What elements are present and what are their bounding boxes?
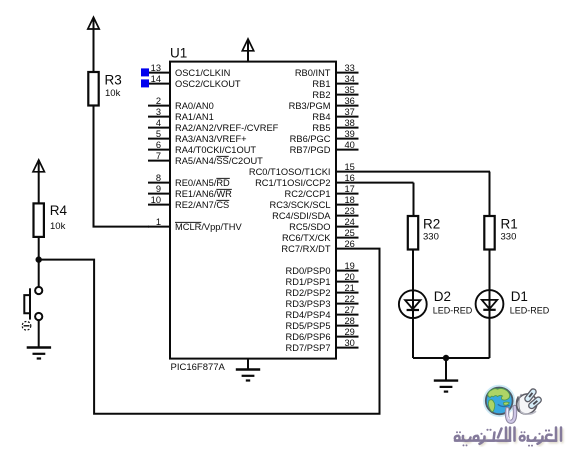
svg-text:RC2/CCP1: RC2/CCP1: [285, 189, 331, 199]
wire pin 29 stub: [336, 336, 359, 338]
svg-text:RA0/AN0: RA0/AN0: [175, 101, 214, 111]
svg-text:RA3/AN3/VREF+: RA3/AN3/VREF+: [175, 134, 247, 144]
button contact top: [35, 287, 42, 294]
svg-text:RB2: RB2: [312, 90, 330, 100]
svg-text:RC5/SDO: RC5/SDO: [289, 222, 330, 232]
wire pin 34 stub: [336, 83, 359, 85]
wire pin 7 stub: [148, 160, 170, 162]
button plunger: [29, 288, 31, 319]
svg-text:30: 30: [345, 338, 355, 348]
svg-text:7: 7: [156, 151, 161, 161]
logic state square pin 13: [141, 68, 149, 76]
resistor R1: [484, 216, 494, 250]
svg-text:RB4: RB4: [312, 112, 330, 122]
svg-text:RB5: RB5: [312, 123, 330, 133]
svg-text:RB6/PGC: RB6/PGC: [290, 134, 331, 144]
wire pin 9 stub: [148, 193, 170, 195]
svg-text:LED-RED: LED-RED: [433, 306, 473, 316]
ground button: [27, 346, 51, 348]
svg-text:15: 15: [345, 162, 355, 172]
svg-text:8: 8: [156, 173, 161, 183]
junction node rail: [443, 355, 449, 361]
LED D2: [399, 290, 427, 318]
wire rail to ground: [445, 358, 447, 381]
svg-text:RD3/PSP3: RD3/PSP3: [286, 299, 331, 309]
wire pin 16 stub: [336, 182, 414, 184]
svg-text:MCLR/Vpp/THV: MCLR/Vpp/THV: [175, 222, 242, 232]
svg-text:RD0/PSP0: RD0/PSP0: [286, 266, 331, 276]
wire button to ground: [38, 320, 40, 347]
wire pin 23 stub: [336, 215, 359, 217]
svg-text:OSC2/CLKOUT: OSC2/CLKOUT: [175, 79, 241, 89]
wire pin 5 stub: [148, 138, 170, 140]
svg-text:5: 5: [156, 129, 161, 139]
svg-text:24: 24: [345, 217, 355, 227]
svg-text:16: 16: [345, 173, 355, 183]
button actuator symbol: [22, 322, 31, 331]
wire R1 to D1: [489, 250, 491, 359]
wire pin 13 stub: [148, 72, 170, 74]
svg-text:23: 23: [345, 206, 355, 216]
junction node: [36, 256, 42, 262]
svg-text:RD1/PSP1: RD1/PSP1: [286, 277, 331, 287]
resistor R2: [408, 216, 418, 250]
svg-text:39: 39: [345, 129, 355, 139]
ground chip VSS: [236, 368, 260, 370]
wire pin 18 stub: [336, 204, 359, 206]
wire pin 30 stub: [336, 347, 359, 349]
svg-text:28: 28: [345, 316, 355, 326]
wire pin 22 stub: [336, 303, 359, 305]
svg-text:R3: R3: [105, 73, 122, 88]
svg-text:D2: D2: [434, 289, 451, 304]
svg-text:RD7/PSP7: RD7/PSP7: [286, 343, 331, 353]
svg-text:19: 19: [345, 261, 355, 271]
logo plug cable: [507, 407, 515, 422]
svg-text:OSC1/CLKIN: OSC1/CLKIN: [175, 68, 230, 78]
wire pin 27 stub: [336, 314, 359, 316]
svg-text:26: 26: [345, 239, 355, 249]
svg-text:U1: U1: [170, 46, 187, 61]
svg-text:330: 330: [423, 232, 439, 243]
svg-text:LED-RED: LED-RED: [510, 306, 550, 316]
svg-text:3: 3: [156, 107, 161, 117]
svg-text:RD5/PSP5: RD5/PSP5: [286, 321, 331, 331]
svg-text:R2: R2: [423, 216, 440, 231]
ground LED rail: [434, 379, 458, 381]
svg-text:RC6/TX/CK: RC6/TX/CK: [282, 233, 331, 243]
wire pin 6 stub: [148, 149, 170, 151]
power VDD R4: [33, 160, 44, 172]
wire pin 21 stub: [336, 292, 359, 294]
svg-text:35: 35: [345, 85, 355, 95]
svg-text:RB3/PGM: RB3/PGM: [289, 101, 331, 111]
svg-text:R1: R1: [501, 216, 518, 231]
svg-text:27: 27: [345, 305, 355, 315]
svg-text:10k: 10k: [50, 221, 66, 232]
wire pin 15 stub: [336, 171, 490, 173]
wire pin15 down: [489, 172, 491, 216]
wire pin 38 stub: [336, 127, 359, 129]
svg-text:34: 34: [345, 74, 355, 84]
svg-text:13: 13: [151, 63, 161, 73]
wire: [247, 359, 249, 370]
wire pin16 down: [413, 183, 415, 216]
power VDD R3: [88, 17, 99, 29]
svg-text:RC3/SCK/SCL: RC3/SCK/SCL: [270, 200, 331, 210]
wire pin 10 stub: [148, 204, 170, 206]
button bracket: [24, 295, 30, 313]
svg-text:RA2/AN2/VREF-/CVREF: RA2/AN2/VREF-/CVREF: [175, 123, 279, 133]
svg-text:D1: D1: [511, 289, 528, 304]
svg-text:RC1/T1OSI/CCP2: RC1/T1OSI/CCP2: [255, 178, 330, 188]
svg-text:RA4/T0CKI/C1OUT: RA4/T0CKI/C1OUT: [175, 145, 256, 155]
svg-text:6: 6: [156, 140, 161, 150]
svg-text:RC7/RX/DT: RC7/RX/DT: [281, 244, 330, 254]
wire LED rail: [413, 357, 490, 359]
wire pin 17 stub: [336, 193, 359, 195]
wire pin 2 stub: [148, 105, 170, 107]
resistor R3: [88, 72, 98, 106]
wire pin 37 stub: [336, 116, 359, 118]
logo plug body: [513, 388, 543, 418]
button contact bottom: [35, 313, 42, 320]
svg-text:21: 21: [345, 283, 355, 293]
logo arabic text shadow: [464, 430, 562, 446]
wire pin 26 stub: [336, 248, 381, 250]
svg-text:36: 36: [345, 96, 355, 106]
svg-text:10: 10: [151, 195, 161, 205]
svg-text:RD4/PSP4: RD4/PSP4: [286, 310, 331, 320]
svg-text:9: 9: [156, 184, 161, 194]
svg-text:RA5/AN4/SS/C2OUT: RA5/AN4/SS/C2OUT: [175, 156, 263, 166]
wire pin 36 stub: [336, 105, 359, 107]
wire pin 28 stub: [336, 325, 359, 327]
wire pin 39 stub: [336, 138, 359, 140]
svg-text:20: 20: [345, 272, 355, 282]
wire pin 40 stub: [336, 149, 359, 151]
wire junction to RC7: [39, 249, 380, 414]
svg-text:2: 2: [156, 96, 161, 106]
svg-text:RE2/AN7/CS: RE2/AN7/CS: [175, 200, 229, 210]
wire pin 3 stub: [148, 116, 170, 118]
wire pin 1 stub: [148, 226, 170, 228]
svg-text:RB7/PGD: RB7/PGD: [290, 145, 331, 155]
svg-text:37: 37: [345, 107, 355, 117]
svg-text:10k: 10k: [105, 88, 121, 99]
svg-text:RD2/PSP2: RD2/PSP2: [286, 288, 331, 298]
svg-text:RE0/AN5/RD: RE0/AN5/RD: [175, 178, 230, 188]
svg-text:1: 1: [156, 217, 161, 227]
svg-text:RC4/SDI/SDA: RC4/SDI/SDA: [272, 211, 331, 221]
wire pin 20 stub: [336, 281, 359, 283]
wire pin 4 stub: [148, 127, 170, 129]
svg-text:14: 14: [151, 74, 161, 84]
power VDD chip: [242, 39, 253, 51]
svg-text:PIC16F877A: PIC16F877A: [171, 362, 226, 373]
wire pin 8 stub: [148, 182, 170, 184]
svg-text:33: 33: [345, 63, 355, 73]
wire pin 24 stub: [336, 226, 359, 228]
svg-text:40: 40: [345, 140, 355, 150]
svg-text:4: 4: [156, 118, 161, 128]
svg-text:RC0/T1OSO/T1CKI: RC0/T1OSO/T1CKI: [249, 167, 331, 177]
LED D1: [476, 290, 504, 318]
svg-text:17: 17: [345, 184, 355, 194]
svg-text:18: 18: [345, 195, 355, 205]
wire R3 to MCLR: [94, 106, 150, 227]
svg-text:38: 38: [345, 118, 355, 128]
wire R4 to button: [38, 237, 40, 287]
logo globe: [484, 386, 514, 416]
logic state square pin 14: [141, 79, 149, 87]
svg-text:RD6/PSP6: RD6/PSP6: [286, 332, 331, 342]
microcontroller U1: [170, 62, 336, 359]
svg-text:R4: R4: [50, 203, 68, 218]
svg-text:RA1/AN1: RA1/AN1: [175, 112, 214, 122]
wire pin 33 stub: [336, 72, 359, 74]
wire pin 25 stub: [336, 237, 359, 239]
resistor R4: [34, 203, 44, 237]
svg-text:RB0/INT: RB0/INT: [295, 68, 331, 78]
wire pin 19 stub: [336, 270, 359, 272]
svg-text:25: 25: [345, 228, 355, 238]
wire: [38, 160, 40, 203]
wire pin 14 stub: [148, 83, 170, 85]
svg-text:RB1: RB1: [312, 79, 330, 89]
wire: [247, 39, 249, 62]
wire: [93, 17, 95, 72]
wire R2 to D2: [412, 250, 414, 359]
svg-text:RE1/AN6/WR: RE1/AN6/WR: [175, 189, 232, 199]
svg-text:29: 29: [345, 327, 355, 337]
svg-text:22: 22: [345, 294, 355, 304]
wire pin 35 stub: [336, 94, 359, 96]
svg-text:330: 330: [501, 232, 517, 243]
